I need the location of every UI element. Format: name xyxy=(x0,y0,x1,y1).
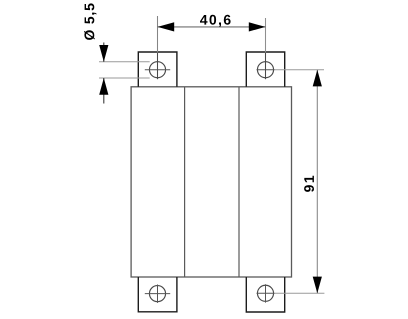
division line right xyxy=(238,87,240,277)
dimension diameter 5,5: label xyxy=(84,3,96,40)
crosshair bottom-left hole horizontal xyxy=(145,293,170,295)
crosshair bottom-left hole vertical xyxy=(157,285,159,303)
flange top-right xyxy=(246,52,284,87)
flange top-left xyxy=(138,52,177,87)
crosshair top-left hole xyxy=(145,69,170,71)
dimension diameter 5,5: extension line bottom tangent xyxy=(99,77,150,79)
hole top-left xyxy=(149,62,165,78)
dimension 91: extension line bottom xyxy=(275,292,325,294)
hole top-right xyxy=(257,62,273,78)
dimension 40,6: dim line xyxy=(158,26,266,28)
body outline xyxy=(131,87,291,277)
dimension 91: extension line top xyxy=(275,69,325,71)
dimension 91: top arrow xyxy=(313,70,322,87)
center line top-right upper (to 40,6 dim) xyxy=(265,18,267,53)
center line top-right lower (crosshair) xyxy=(265,53,267,80)
hole bottom-left xyxy=(149,286,165,302)
crosshair top-right hole xyxy=(257,69,275,71)
dimension 91: dim line xyxy=(316,70,318,294)
dimension 91: bottom arrow xyxy=(313,277,322,294)
flange bottom-right xyxy=(246,277,284,312)
dimension diameter 5,5: extension line top tangent xyxy=(99,61,150,63)
dimension diameter 5,5: upper leader line xyxy=(103,43,105,62)
dimension diameter 5,5: upper arrow (points down) xyxy=(99,45,108,62)
dimension diameter 5,5: lower arrow (points up) xyxy=(99,78,108,95)
flange bottom-left xyxy=(138,277,177,312)
dimension diameter 5,5: lower leader line xyxy=(103,78,105,104)
dimension 40,6: right arrow xyxy=(249,22,266,31)
dimension 40,6: left arrow xyxy=(158,22,175,31)
division line left xyxy=(184,87,186,277)
crosshair bottom-right hole vertical xyxy=(265,284,267,302)
hole bottom-right xyxy=(257,285,273,301)
dimension 40,6: label xyxy=(200,15,231,27)
dimension 91: label xyxy=(304,176,314,192)
crosshair bottom-right hole horizontal xyxy=(257,292,275,294)
center line top-left lower (crosshair) xyxy=(157,53,159,80)
center line top-left upper (to 40,6 dim) xyxy=(157,16,159,53)
